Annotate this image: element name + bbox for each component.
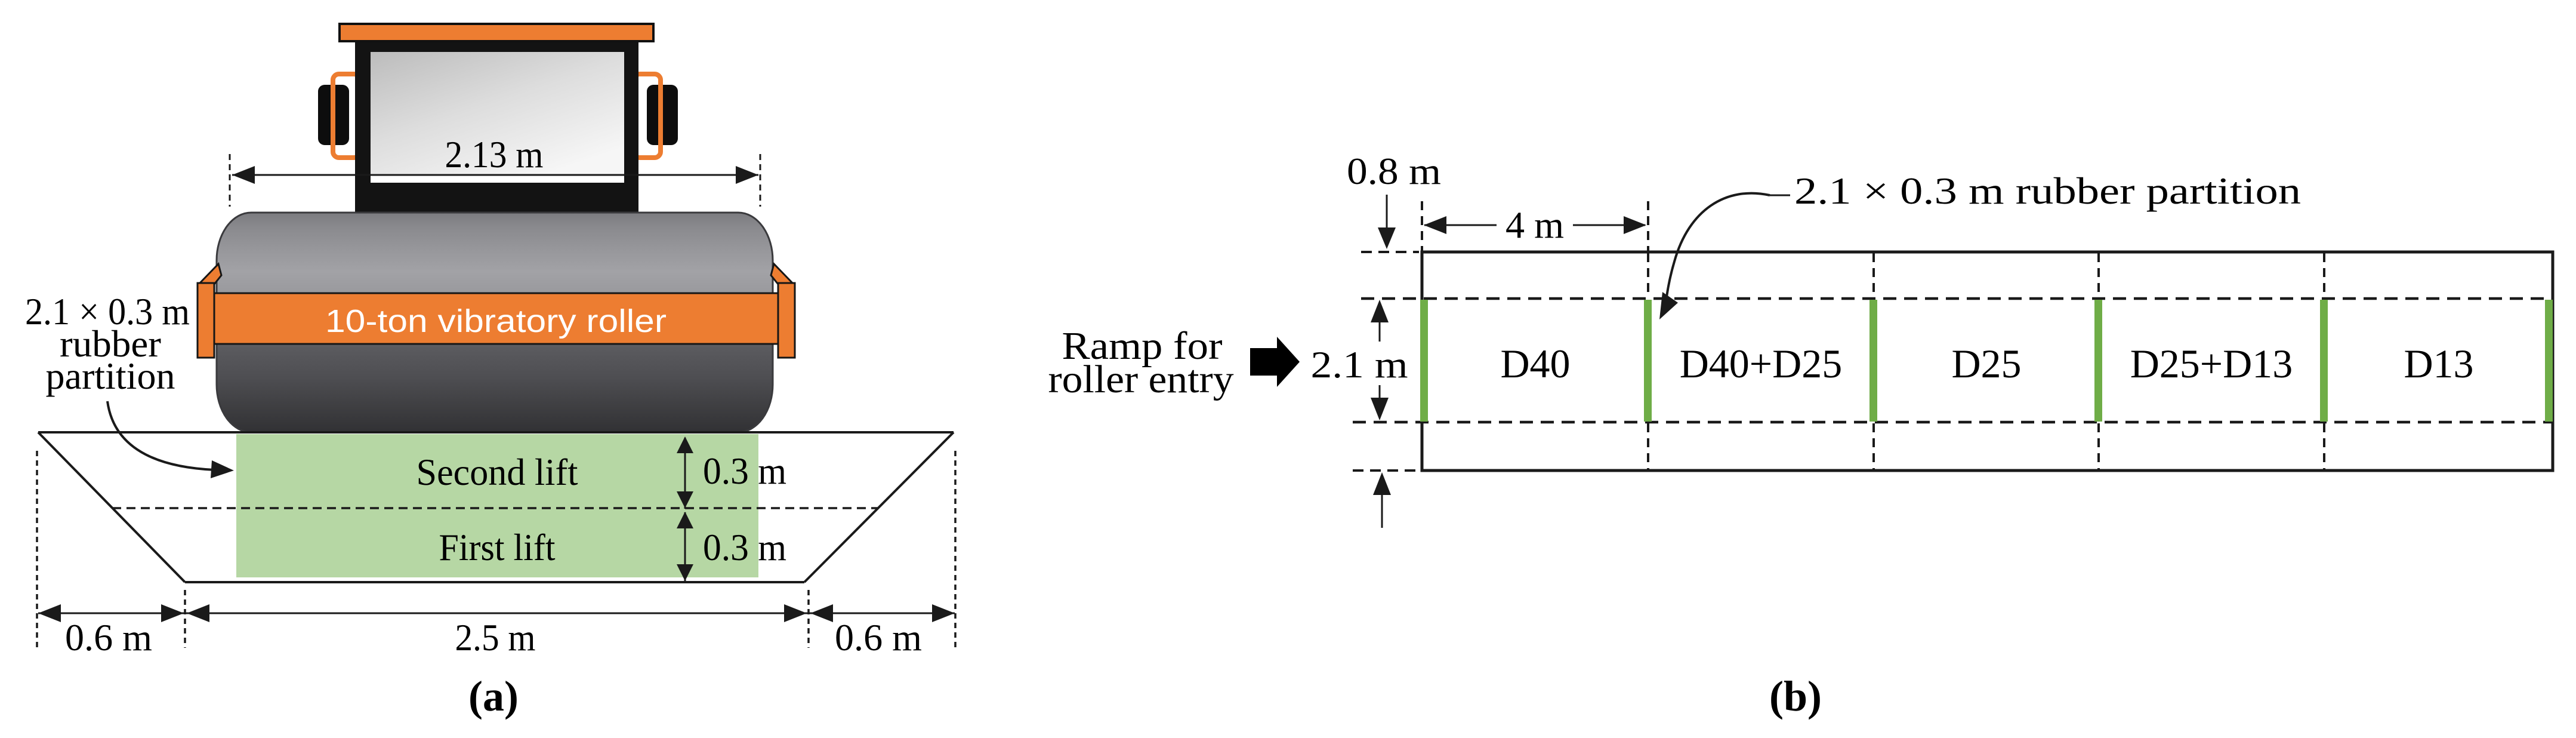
svg-text:4 m: 4 m (1506, 204, 1564, 246)
svg-text:(b): (b) (1769, 672, 1822, 720)
svg-text:0.6 m: 0.6 m (65, 616, 152, 659)
svg-text:roller entry: roller entry (1048, 358, 1234, 401)
svg-text:(a): (a) (468, 672, 519, 720)
svg-text:2.1 × 0.3 m rubber partition: 2.1 × 0.3 m rubber partition (1794, 170, 2301, 212)
svg-text:D13: D13 (2404, 341, 2473, 386)
svg-text:0.8 m: 0.8 m (1347, 150, 1441, 192)
svg-text:D25+D13: D25+D13 (2130, 341, 2293, 386)
svg-text:First lift: First lift (439, 526, 556, 568)
svg-text:2.13 m: 2.13 m (445, 133, 544, 176)
svg-text:partition: partition (46, 355, 175, 397)
svg-text:0.3 m: 0.3 m (703, 526, 786, 568)
svg-text:0.3 m: 0.3 m (703, 450, 786, 492)
svg-text:Second lift: Second lift (417, 451, 578, 493)
svg-text:2.1 m: 2.1 m (1311, 343, 1408, 386)
svg-text:10-ton vibratory roller: 10-ton vibratory roller (325, 303, 667, 339)
svg-text:0.6 m: 0.6 m (835, 616, 922, 659)
svg-text:2.5 m: 2.5 m (455, 616, 536, 659)
svg-text:D25: D25 (1951, 341, 2021, 386)
svg-text:D40: D40 (1500, 341, 1570, 386)
svg-text:D40+D25: D40+D25 (1680, 341, 1843, 386)
